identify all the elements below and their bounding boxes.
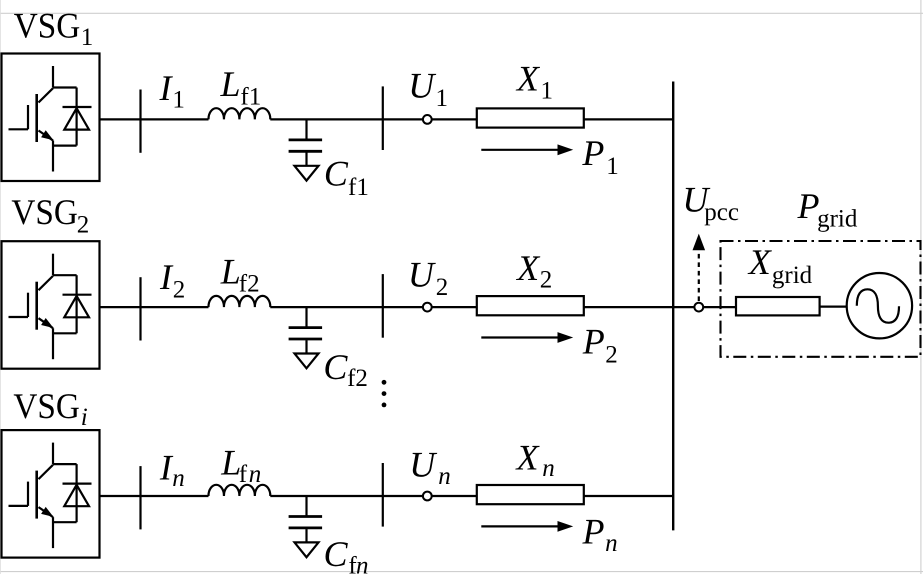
- transistor Q1 gate bar: [27, 105, 29, 129]
- ground symbol below Cf1: [295, 166, 319, 181]
- wire inductor Lf1 to node U1: [270, 118, 423, 120]
- grid equivalent dash-dot box: [721, 241, 921, 357]
- Upcc dashed arrow line: [698, 250, 700, 302]
- capacitor Cf2 lower stem: [305, 340, 307, 353]
- diode D1 vertical link: [75, 88, 77, 146]
- wire node U1 to reactance X1: [432, 118, 477, 120]
- svg-text:n: n: [605, 530, 618, 557]
- VSGi converter box: [2, 430, 100, 557]
- svg-text:2: 2: [173, 276, 186, 303]
- VSG1 converter box: [2, 54, 100, 182]
- wire Xgrid to AC source: [820, 306, 847, 308]
- svg-text:I: I: [159, 257, 174, 297]
- svg-text:n: n: [172, 465, 185, 492]
- svg-text:n: n: [542, 455, 555, 482]
- svg-text:i: i: [81, 404, 88, 431]
- AC source sine wave: [857, 289, 899, 322]
- Upcc arrowhead: [693, 234, 706, 251]
- reactance X1 box: [477, 108, 584, 127]
- svg-text:n: n: [356, 552, 369, 574]
- wire inductor Lfn to node Un: [270, 495, 423, 497]
- wire VSG1 output to inductor Lf1: [100, 118, 209, 120]
- wire VSGi output to inductor Lfn: [100, 495, 209, 497]
- wire node Un to reactance Xn: [432, 495, 477, 497]
- ellipsis dots between rows: [382, 380, 387, 407]
- svg-text:X: X: [515, 58, 541, 98]
- transistor Q3 emitter diagonal: [39, 507, 54, 517]
- transistor Q1 emitter arrowhead: [41, 130, 53, 140]
- diode D2 triangle: [64, 296, 89, 317]
- AC source circle: [847, 273, 912, 338]
- svg-text:P: P: [582, 322, 605, 362]
- transistor Q1 collector diagonal: [39, 88, 54, 102]
- svg-text:1: 1: [81, 24, 94, 51]
- svg-text:grid: grid: [772, 262, 813, 289]
- transistor Q3 main bar: [35, 471, 38, 519]
- transistor Q3 emitter arrowhead: [41, 507, 53, 517]
- capacitor Cf1 top plate: [289, 138, 323, 141]
- measurement bar at U2: [382, 274, 384, 338]
- wire VSG2 output to inductor Lf2: [100, 306, 209, 308]
- node U2 terminal circle: [423, 303, 432, 312]
- power flow P2 arrowhead: [558, 332, 574, 343]
- svg-text:f: f: [239, 461, 248, 488]
- capacitor Cf1 stem: [305, 119, 307, 139]
- transistor Q3 gate bar: [27, 482, 29, 506]
- reactance X2 box: [477, 296, 584, 315]
- transistor Q1 gate lead: [9, 128, 29, 130]
- svg-text:2: 2: [605, 341, 618, 368]
- svg-text:2: 2: [77, 211, 90, 238]
- VSG2 converter box: [2, 241, 100, 369]
- svg-text:f2: f2: [347, 365, 368, 392]
- svg-text:2: 2: [436, 274, 449, 301]
- svg-text:f1: f1: [240, 83, 261, 110]
- capacitor Cf2 top plate: [289, 326, 323, 329]
- capacitor Cfn lower stem: [305, 529, 307, 542]
- transistor Q2 main bar: [35, 282, 38, 330]
- diode D2 bottom connector wire: [53, 332, 77, 334]
- svg-text:1: 1: [172, 87, 185, 114]
- svg-text:C: C: [324, 534, 349, 574]
- power flow Pn arrow shaft: [481, 525, 558, 527]
- PCC bus bar: [672, 82, 674, 531]
- svg-text:n: n: [249, 461, 261, 488]
- svg-text:2: 2: [540, 267, 553, 294]
- power flow P1 arrowhead: [558, 144, 574, 155]
- transistor Q2 collector lead: [52, 254, 54, 276]
- svg-text:C: C: [324, 153, 349, 193]
- reactance Xn box: [477, 485, 584, 504]
- svg-text:P: P: [797, 186, 820, 226]
- measurement bar at I1: [139, 90, 141, 153]
- node PCC terminal circle: [694, 303, 703, 312]
- ground symbol below Cf2: [295, 354, 319, 369]
- transistor Q1 emitter lead: [52, 141, 54, 172]
- measurement bar at U1: [382, 86, 384, 150]
- svg-text:1: 1: [606, 153, 619, 180]
- wire node U2 to reactance X2: [432, 306, 477, 308]
- wire bus to PCC node: [673, 306, 694, 308]
- capacitor Cf2 bottom plate: [289, 338, 323, 341]
- diode D1 bottom connector wire: [53, 145, 77, 147]
- svg-text:n: n: [438, 463, 451, 490]
- svg-text:U: U: [408, 65, 436, 105]
- transistor Q2 gate bar: [27, 293, 29, 317]
- svg-text:1: 1: [436, 85, 449, 112]
- inductor Lf2: [208, 296, 270, 307]
- svg-text:C: C: [323, 347, 348, 387]
- transistor Q3 emitter lead: [52, 517, 54, 548]
- diode D3 top connector wire: [53, 463, 77, 465]
- svg-text:f1: f1: [348, 174, 369, 201]
- svg-text:U: U: [408, 254, 436, 294]
- diode D2 cathode bar: [63, 294, 92, 296]
- svg-text:L: L: [220, 64, 241, 104]
- transistor Q2 emitter lead: [52, 328, 54, 359]
- svg-text:U: U: [409, 445, 437, 485]
- wire PCC node to Xgrid: [703, 306, 736, 308]
- measurement bar at I2: [139, 277, 141, 340]
- svg-text:X: X: [515, 438, 541, 478]
- diode D3 triangle: [64, 485, 89, 506]
- node Un terminal circle: [423, 492, 432, 501]
- measurement bar at In: [139, 466, 141, 529]
- wire reactance X1 to PCC bus: [584, 118, 673, 120]
- svg-text:P: P: [582, 511, 605, 551]
- svg-text:pcc: pcc: [704, 199, 739, 226]
- svg-text:1: 1: [541, 78, 554, 105]
- diode D2 vertical link: [75, 275, 77, 333]
- capacitor Cfn bottom plate: [289, 527, 323, 530]
- wire inductor Lf2 to node U2: [270, 306, 423, 308]
- transistor Q3 collector diagonal: [39, 465, 54, 479]
- transistor Q3 gate lead: [9, 505, 29, 507]
- inductor Lf1: [208, 108, 270, 119]
- transistor Q1 emitter diagonal: [39, 131, 54, 141]
- svg-text:f2: f2: [239, 271, 260, 298]
- node U1 terminal circle: [423, 115, 432, 124]
- diode D2 top connector wire: [53, 274, 77, 276]
- diode D3 bottom connector wire: [53, 521, 77, 523]
- svg-text:P: P: [581, 133, 604, 173]
- capacitor Cfn stem: [305, 496, 307, 516]
- svg-text:X: X: [515, 248, 541, 288]
- transistor Q2 emitter arrowhead: [41, 318, 53, 328]
- capacitor Cf1 bottom plate: [289, 150, 323, 153]
- diode D3 vertical link: [75, 464, 77, 522]
- transistor Q1 collector lead: [52, 66, 54, 88]
- power flow P1 arrow shaft: [481, 149, 558, 151]
- capacitor Cfn top plate: [289, 515, 323, 518]
- svg-text:X: X: [747, 242, 773, 282]
- svg-text:L: L: [220, 252, 241, 292]
- diode D1 cathode bar: [63, 106, 92, 108]
- svg-text:VSG: VSG: [13, 386, 80, 426]
- capacitor Cf1 lower stem: [305, 153, 307, 166]
- transistor Q3 collector lead: [52, 443, 54, 465]
- diode D1 triangle: [64, 108, 89, 129]
- transistor Q2 collector diagonal: [39, 276, 54, 290]
- transistor Q2 gate lead: [9, 316, 29, 318]
- capacitor Cf2 stem: [305, 307, 307, 327]
- wire reactance X2 to PCC bus: [584, 306, 673, 308]
- inductor Lfn: [208, 485, 270, 496]
- transistor Q2 emitter diagonal: [39, 318, 54, 328]
- diode D1 top connector wire: [53, 86, 77, 88]
- ground symbol below Cfn: [295, 542, 319, 557]
- svg-text:VSG: VSG: [11, 192, 78, 232]
- transistor Q1 main bar: [35, 94, 38, 142]
- wire reactance Xn to PCC bus: [584, 495, 673, 497]
- power flow P2 arrow shaft: [481, 336, 558, 338]
- power flow Pn arrowhead: [558, 521, 574, 532]
- svg-text:grid: grid: [817, 206, 858, 233]
- reactance Xgrid box: [736, 297, 820, 315]
- measurement bar at Un: [382, 463, 384, 527]
- svg-text:VSG: VSG: [14, 5, 81, 45]
- diode D3 cathode bar: [63, 483, 92, 485]
- svg-text:I: I: [159, 68, 174, 108]
